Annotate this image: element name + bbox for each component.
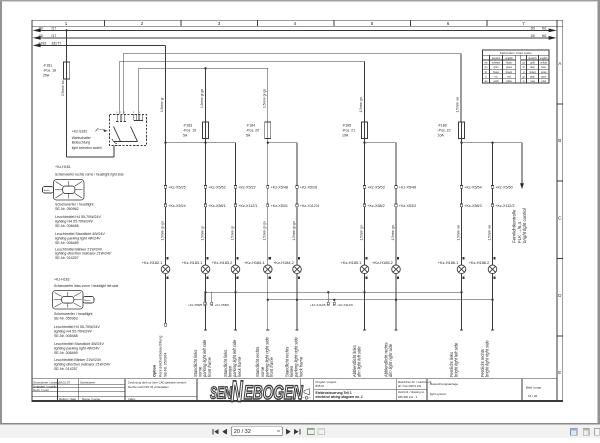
toolbar last page button xyxy=(294,429,300,434)
svg-text:835 M: 835 M xyxy=(316,384,325,388)
wire license plate light branch xyxy=(164,283,166,326)
svg-text:grey: grey xyxy=(541,75,546,78)
wire circuit 7 vertical xyxy=(395,143,397,265)
frame column numbers 1-7 xyxy=(65,21,526,26)
lamp H183.2 label xyxy=(212,260,233,265)
lamp H184.2 xyxy=(293,257,302,283)
title block project cell xyxy=(316,380,363,399)
fuse F185 xyxy=(362,122,368,139)
lamp H186.2 xyxy=(488,257,497,283)
svg-text:+Kz-X58/6: +Kz-X58/6 xyxy=(215,303,229,307)
function label Abblendlicht rechts xyxy=(383,342,393,377)
svg-text:N: N xyxy=(231,376,244,409)
svg-text:lighting direction indicator 2: lighting direction indicator 21W/24V xyxy=(54,363,111,367)
svg-text:Blatt / page: Blatt / page xyxy=(526,385,542,389)
lamp H185.2 xyxy=(392,257,401,283)
svg-text:1: 1 xyxy=(65,21,68,26)
svg-text:SE-Nr. 008489: SE-Nr. 008489 xyxy=(55,241,79,245)
svg-text:SE-Nr. 008489: SE-Nr. 008489 xyxy=(54,351,78,355)
svg-text:violett: violett xyxy=(529,71,536,74)
svg-text:front frame: front frame xyxy=(269,356,274,377)
svg-text:Kennzeichenbeleuchtung: Kennzeichenbeleuchtung xyxy=(159,336,163,377)
function label Fernlicht links xyxy=(449,342,459,377)
color code table xyxy=(483,50,550,83)
svg-text:+Kz-H181: +Kz-H181 xyxy=(55,165,71,169)
svg-text:Beleuchtungsanlage: Beleuchtungsanlage xyxy=(430,382,458,386)
bus 30 wire xyxy=(37,29,551,31)
svg-text:-Pos. 20: -Pos. 20 xyxy=(246,128,259,132)
svg-text:Leuchtmittel Blinker 21W/24V: Leuchtmittel Blinker 21W/24V xyxy=(54,358,102,362)
wire label 1.5mm 2 gn (rotated) xyxy=(359,225,363,240)
title block page cell xyxy=(526,385,542,398)
wire circuit 2 vertical xyxy=(205,143,207,265)
headlight H181 title xyxy=(55,173,124,177)
FLK destination label (rotated) xyxy=(512,207,528,243)
viewer window edge left xyxy=(0,0,2,424)
svg-text:Rechte nach DIN 34 vorbehalten: Rechte nach DIN 34 vorbehalten xyxy=(128,385,169,389)
fuse F184 label xyxy=(246,123,259,137)
svg-text:+Kz-X53/4: +Kz-X53/4 xyxy=(168,204,185,208)
wire circuit 6 vertical xyxy=(364,143,366,265)
frame row letters A-E xyxy=(558,61,562,375)
bus F183 label F183 </77 xyxy=(39,41,62,45)
svg-text:-Pos. 19: -Pos. 19 xyxy=(183,128,196,132)
wire lamp return 8 down xyxy=(460,283,463,330)
svg-text:SEN: SEN xyxy=(210,383,232,402)
wire ground bus A xyxy=(206,291,462,293)
wire lamp return 9 down xyxy=(491,283,494,330)
svg-text:Blinker: Blinker xyxy=(84,300,90,302)
connector pin X53/1 xyxy=(267,204,288,208)
svg-text:1.5mm² gr: 1.5mm² gr xyxy=(230,225,234,240)
wire rail F186 output with FLK branch xyxy=(462,139,523,143)
wire bus30 down to fuse F181 xyxy=(66,30,68,62)
wire FLK branch down with arrow xyxy=(520,143,524,189)
svg-text:1.5mm² ws: 1.5mm² ws xyxy=(456,97,460,113)
svg-text:SE-Nr. 050963: SE-Nr. 050963 xyxy=(54,316,78,320)
svg-text:20 / 32: 20 / 32 xyxy=(234,429,251,435)
svg-text:brown: brown xyxy=(506,71,513,74)
toolbar first page button xyxy=(212,429,218,434)
svg-text:blau: blau xyxy=(530,66,535,69)
bus 15 right arrow xyxy=(549,36,557,40)
svg-text:light system: light system xyxy=(430,392,447,396)
node junction on F184 rail xyxy=(267,142,269,144)
svg-text:Zeich-Nr. / drawing no: Zeich-Nr. / drawing no xyxy=(398,390,425,394)
svg-text:braun: braun xyxy=(493,71,500,74)
bus 15 left label 15/ f17 xyxy=(39,34,57,38)
connector pin X53/2 xyxy=(395,204,416,208)
svg-text:10A: 10A xyxy=(438,133,445,137)
svg-text:rot: rot xyxy=(495,75,498,78)
svg-text:br: br xyxy=(485,71,487,74)
svg-text:blue: blue xyxy=(541,66,546,69)
bus 15 wire xyxy=(37,37,551,39)
svg-text:+Kz-H182.1: +Kz-H182.1 xyxy=(142,260,163,265)
svg-text:1.5mm² gr: 1.5mm² gr xyxy=(160,97,164,112)
wire label 1.5mm 2 ws (rotated) xyxy=(456,225,460,241)
svg-text:16 / 20: 16 / 20 xyxy=(528,394,538,398)
svg-text:+Kz-H186.1: +Kz-H186.1 xyxy=(438,260,459,265)
lamp H185.2 label xyxy=(372,260,393,265)
wire label 1.5mm2 gn (rotated) F185 xyxy=(359,97,363,112)
fuse F181 label -F181 -Pos. 18 25A xyxy=(43,63,56,77)
headlight H182 symbol xyxy=(53,291,95,310)
wire label 1.5mm 2 gr-gn (rotated) xyxy=(160,221,164,240)
title block drawn row xyxy=(33,380,100,401)
svg-text:+Kz-H186.2: +Kz-H186.2 xyxy=(469,260,490,265)
svg-text:heck frame: heck frame xyxy=(237,356,242,377)
switch S182 description text xyxy=(72,136,102,150)
svg-text:1.5mm² ws: 1.5mm² ws xyxy=(487,225,491,241)
svg-text:dim light right side: dim light right side xyxy=(388,343,393,377)
switch S182 enclosure (dashed) xyxy=(110,115,147,146)
wire circuit 8 vertical xyxy=(461,143,463,265)
fuse F183 label xyxy=(183,123,196,137)
function label Standlicht links hinten xyxy=(223,339,242,378)
svg-text:1.5mm² gr-gn: 1.5mm² gr-gn xyxy=(160,221,164,240)
svg-text:5: 5 xyxy=(371,21,374,26)
svg-text:+Kz-X5/50: +Kz-X5/50 xyxy=(495,186,512,190)
svg-text:weiß: weiß xyxy=(493,80,499,83)
svg-text:bright light right side: bright light right side xyxy=(485,340,490,377)
toolbar new window icon xyxy=(308,429,315,435)
svg-text:Leuchtmittel H4 55-70W/24V: Leuchtmittel H4 55-70W/24V xyxy=(55,215,102,219)
wire circuit 1 vertical xyxy=(165,143,167,265)
svg-text:Option: Option xyxy=(153,364,157,377)
connector pin X5/48 xyxy=(267,186,288,190)
svg-text:Scheinwerfer / headlight: Scheinwerfer / headlight xyxy=(54,312,93,316)
statusbar window icon 3 xyxy=(594,429,599,436)
connector pin X5/25 xyxy=(164,186,185,190)
connector pin X5/49 xyxy=(395,186,416,190)
headlight H181 bulb info parking light xyxy=(55,232,106,245)
wire lamp return 2 down xyxy=(204,283,207,330)
fuse F184 xyxy=(265,122,271,139)
svg-text:Scheinwerfer / headlight: Scheinwerfer / headlight xyxy=(55,202,94,206)
svg-text:+Kz-X5/49: +Kz-X5/49 xyxy=(399,186,416,190)
svg-text:-F186: -F186 xyxy=(438,123,447,127)
svg-text:+Kz-H184.2: +Kz-H184.2 xyxy=(273,260,294,265)
svg-text:electrical wiring diagram no.: electrical wiring diagram no. 1 xyxy=(316,395,363,399)
svg-text:SE-Nr. 008488: SE-Nr. 008488 xyxy=(54,334,78,338)
svg-text:5A: 5A xyxy=(183,133,188,137)
fuse F186 label xyxy=(438,123,451,137)
connector pin X112/4 xyxy=(296,204,319,208)
svg-text:2: 2 xyxy=(141,21,144,26)
svg-text:+Kz-S182: +Kz-S182 xyxy=(72,130,88,134)
svg-text:SE-Nr. 008488: SE-Nr. 008488 xyxy=(55,224,79,228)
svg-text:deutsch: deutsch xyxy=(492,57,501,60)
svg-text:F183: F183 xyxy=(39,41,47,45)
svg-text:Wahlschalter: Wahlschalter xyxy=(72,136,92,140)
svg-text:+Kz-H183.2: +Kz-H183.2 xyxy=(212,260,233,265)
function label Standlicht rechts hinten xyxy=(284,336,303,378)
svg-text:+Kz-X58/5: +Kz-X58/5 xyxy=(188,303,202,307)
svg-text:+Kz-X58/3: +Kz-X58/3 xyxy=(464,204,481,208)
svg-text:30/: 30/ xyxy=(39,26,44,30)
wire label 1.5mm 2 gn (rotated) xyxy=(391,225,395,240)
svg-text:15/: 15/ xyxy=(39,34,44,38)
svg-text:+Kz-X112/1: +Kz-X112/1 xyxy=(238,204,257,208)
headlight H182 bulb info indicator xyxy=(54,358,111,371)
lamp H182.1 xyxy=(161,257,170,283)
svg-text:lighting H4 55-70W/24V: lighting H4 55-70W/24V xyxy=(55,220,94,224)
svg-text:+Kz-H185.1: +Kz-H185.1 xyxy=(341,260,362,265)
svg-text:english: english xyxy=(540,57,548,60)
svg-text:Blinker: Blinker xyxy=(44,190,50,192)
wire label 1.5mm 2 gr-gn (rotated) xyxy=(292,221,296,240)
switch S182 label +Kz-S182 with arrow xyxy=(72,129,108,134)
svg-text:lighting parking light 4W/24V: lighting parking light 4W/24V xyxy=(55,236,101,240)
svg-text:ab / from 835.0.311: ab / from 835.0.311 xyxy=(398,384,422,388)
fuse F183 xyxy=(203,122,209,139)
lamp H184.2 label xyxy=(273,260,294,265)
svg-text:5A: 5A xyxy=(246,133,251,137)
lamp H184.1 label xyxy=(244,260,265,265)
function label Abblendlicht links xyxy=(352,345,362,377)
svg-text:+Kz-X5/25: +Kz-X5/25 xyxy=(168,186,185,190)
svg-text:28.02.07: 28.02.07 xyxy=(59,380,71,384)
svg-text:+Kz-X53/1: +Kz-X53/1 xyxy=(271,204,288,208)
connector pin X5/22 xyxy=(234,186,255,190)
svg-text:Leuchtmittel Standlicht 4W/24V: Leuchtmittel Standlicht 4W/24V xyxy=(55,232,106,236)
svg-text:green: green xyxy=(506,66,513,69)
wire switch pin to fuse F185 feed xyxy=(119,61,364,122)
wire bus F183 drop to circuit 1 xyxy=(165,45,167,142)
function label Standlicht rechts vorne xyxy=(255,336,274,378)
lamp H184.1 xyxy=(264,257,273,283)
svg-text:-F185: -F185 xyxy=(342,123,351,127)
svg-text:+Kz-X5/54: +Kz-X5/54 xyxy=(464,186,481,190)
option label (rotated) xyxy=(153,364,157,377)
node junctions on F183 rail xyxy=(164,142,206,144)
node junctions ground bus B xyxy=(267,299,494,301)
connector pin X112/5 X112/6 pair xyxy=(310,292,353,307)
bus 30 left label 30/ f17 xyxy=(39,26,57,30)
svg-text:+Kz-H185.2: +Kz-H185.2 xyxy=(372,260,393,265)
svg-text:Leuchtmittel Standlicht 4W/24V: Leuchtmittel Standlicht 4W/24V xyxy=(54,342,105,346)
svg-text:1.5mm² gn: 1.5mm² gn xyxy=(359,97,363,112)
frame row band right xyxy=(557,20,563,400)
title block system cell xyxy=(430,382,458,396)
svg-text:EBOGEN: EBOGEN xyxy=(244,382,304,404)
frame column ruler band xyxy=(32,20,563,26)
svg-text:1.5mm² gn: 1.5mm² gn xyxy=(391,225,395,240)
svg-text:+Kz-X112/4: +Kz-X112/4 xyxy=(300,204,319,208)
svg-text:dim light left side: dim light left side xyxy=(357,346,362,377)
wire lamp return 3 down xyxy=(234,283,237,330)
svg-text:835.302.111 - 1: 835.302.111 - 1 xyxy=(398,395,418,399)
svg-text:Datum / date: Datum / date xyxy=(59,397,77,401)
lamp H186.1 xyxy=(457,257,466,283)
svg-text:Index: Index xyxy=(128,397,136,401)
svg-text:Norm / norm: Norm / norm xyxy=(33,388,50,392)
svg-text:schwarz: schwarz xyxy=(492,62,502,65)
toolbar duplicate window icon (disabled) xyxy=(318,429,325,435)
wire rail F184 output xyxy=(268,139,297,143)
svg-text:-Pos. 21: -Pos. 21 xyxy=(342,128,355,132)
svg-text:Farbcodes / Color codes: Farbcodes / Color codes xyxy=(500,51,532,55)
svg-text:+Kz-X112/6: +Kz-X112/6 xyxy=(337,303,353,307)
title block grid xyxy=(32,379,557,401)
svg-text:E: E xyxy=(558,370,561,375)
wire label 1.5mm 2 gr (rotated) xyxy=(230,225,234,240)
svg-text:Name / name: Name / name xyxy=(82,397,100,401)
svg-text:B: B xyxy=(558,138,561,143)
headlight H181 bulb info H4 xyxy=(55,215,102,228)
connector pin X58/5 X58/6 pair xyxy=(188,292,229,307)
svg-text:Scheinwerfer rechts vorne /: Scheinwerfer rechts vorne / headlight ri… xyxy=(55,173,124,177)
headlight H181 bulb info indicator xyxy=(55,247,112,260)
svg-text:Maschinen-Nr. / machine-Nr.: Maschinen-Nr. / machine-Nr. xyxy=(398,380,432,384)
viewer toolbar background xyxy=(0,423,600,425)
lamp H186.1 label xyxy=(438,260,459,265)
node junction comb wire to F183 xyxy=(204,67,206,69)
svg-text:f17: f17 xyxy=(52,34,57,38)
wire switch comb to fuses F183 F184 feed xyxy=(138,68,267,122)
function label Standlicht links vorne xyxy=(193,339,212,378)
svg-text:-F184: -F184 xyxy=(246,123,255,127)
title block CAD notice xyxy=(128,381,187,402)
headlight H182 designator xyxy=(54,277,70,281)
svg-text:f17: f17 xyxy=(52,26,57,30)
svg-text:front frame: front frame xyxy=(207,356,212,377)
svg-text:+Kz-X5/26: +Kz-X5/26 xyxy=(300,186,317,190)
svg-text:SE-Nr. 050964: SE-Nr. 050964 xyxy=(163,353,167,377)
svg-text:deutsch: deutsch xyxy=(528,57,537,60)
svg-text:1.5mm² ws: 1.5mm² ws xyxy=(456,225,460,241)
connector pin X5/52 xyxy=(204,186,225,190)
svg-text:+Kz-X53/2: +Kz-X53/2 xyxy=(399,204,416,208)
wire circuit 9 vertical xyxy=(492,143,494,265)
bus 15 left arrow xyxy=(33,36,41,40)
connector pin X58/3 xyxy=(460,204,481,208)
lamp H183.1 label xyxy=(182,260,203,265)
svg-text:heck frame: heck frame xyxy=(298,356,303,377)
switch S182 pin numbers xyxy=(116,112,141,114)
fuse F181 xyxy=(63,62,69,79)
svg-text:2.5mm² sw: 2.5mm² sw xyxy=(61,80,65,96)
svg-text:yellow: yellow xyxy=(540,62,547,65)
connector pin X58/1 xyxy=(204,204,225,208)
svg-text:&lt;/77: &lt;/77 xyxy=(52,41,62,45)
wire rail F183 output xyxy=(166,139,236,143)
toolbar page number field xyxy=(232,427,283,436)
svg-text:light selection switch: light selection switch xyxy=(72,146,102,150)
title block machine number cell xyxy=(398,380,432,399)
svg-text:Beleuchtung: Beleuchtung xyxy=(72,141,90,145)
svg-text:gelb: gelb xyxy=(530,62,535,65)
svg-text:grau: grau xyxy=(530,75,535,78)
headlight H182 bulb info parking light xyxy=(54,342,105,355)
wire label 2.5mm2 sw (rotated) xyxy=(61,80,65,96)
lamp H182.1 label xyxy=(142,260,163,265)
bus F183 wire from sheet 77 xyxy=(37,44,166,46)
wire circuit 5 vertical xyxy=(296,143,298,265)
connector pin X112/3 xyxy=(491,204,514,208)
wire label 1.5mm2 gr-gn (rotated) F183 xyxy=(200,89,204,108)
connector pin X5/54 xyxy=(460,186,481,190)
toolbar next page button xyxy=(286,429,291,435)
connector pin X58/2 xyxy=(363,204,384,208)
svg-text:3: 3 xyxy=(218,21,221,26)
bus 30 left arrow xyxy=(33,29,41,33)
svg-text:rosa: rosa xyxy=(530,80,535,83)
svg-text:25A: 25A xyxy=(43,73,50,77)
wire lamp return 7 down xyxy=(394,283,397,330)
viewer window edge top xyxy=(0,0,600,2)
svg-text:+Kz-H183.1: +Kz-H183.1 xyxy=(182,260,203,265)
svg-text:6: 6 xyxy=(447,21,450,26)
wire circuit 4 vertical xyxy=(267,143,269,265)
svg-text:-Pos. 22: -Pos. 22 xyxy=(438,128,451,132)
svg-text:+Kz-X112/3: +Kz-X112/3 xyxy=(495,204,514,208)
svg-text:+Kz-X5/48: +Kz-X5/48 xyxy=(271,186,288,190)
projection symbol xyxy=(303,389,311,399)
wire lamp return 5 down xyxy=(295,283,298,330)
svg-text:violet: violet xyxy=(541,71,547,74)
lamp H183.1 xyxy=(201,257,210,283)
svg-text:f61: f61 xyxy=(542,26,547,30)
svg-text:lighting direction indicator 2: lighting direction indicator 21W/24V xyxy=(55,252,112,256)
svg-text:7: 7 xyxy=(522,21,525,26)
node junction on F185 rail xyxy=(363,142,365,144)
bus 30 right arrow xyxy=(549,29,557,33)
svg-text:1.5mm² gn: 1.5mm² gn xyxy=(359,225,363,240)
svg-text:10A: 10A xyxy=(342,133,349,137)
svg-text:black: black xyxy=(506,62,512,65)
svg-text:gr: gr xyxy=(523,75,525,78)
svg-text:white: white xyxy=(506,80,512,83)
svg-text:english: english xyxy=(505,57,513,60)
fuse F186 xyxy=(459,122,465,139)
wire label 1.5mm 2 ws (rotated) xyxy=(487,225,491,241)
wire circuit 3 vertical xyxy=(235,143,237,265)
bus F183 left arrow xyxy=(33,44,41,48)
wire rail F185 output xyxy=(365,139,397,143)
svg-text:1.5mm² gr: 1.5mm² gr xyxy=(200,225,204,240)
function label Fernlicht rechts xyxy=(480,340,490,377)
svg-text:1.5mm² gr-gn: 1.5mm² gr-gn xyxy=(263,89,267,108)
wire label 1.5mm2 gr-gn (rotated) F184 xyxy=(263,89,267,108)
wire lamp return 6 down xyxy=(363,283,366,330)
svg-text:Leuchtmittel H4 55-70W/24V: Leuchtmittel H4 55-70W/24V xyxy=(54,325,101,329)
svg-text:1.5mm² gr-gn: 1.5mm² gr-gn xyxy=(292,221,296,240)
wire F181 output to switch S182 input xyxy=(67,79,114,157)
node junctions ground bus A xyxy=(204,291,462,293)
lamp H185.1 xyxy=(360,257,369,283)
connector pin X5/53 xyxy=(363,186,384,190)
svg-text:+Kz-H184.1: +Kz-H184.1 xyxy=(244,260,265,265)
lamp H183.2 xyxy=(231,257,240,283)
viewer window edge right xyxy=(598,0,600,424)
wire label 1.5mm 2 gr-gn (rotated) xyxy=(263,221,267,240)
svg-text:FLK →/6.4: FLK →/6.4 xyxy=(517,221,522,243)
connector pin X5/50 xyxy=(491,186,512,190)
svg-text:15/: 15/ xyxy=(531,34,536,38)
wire switch pin to fuse F186 feed xyxy=(123,54,461,122)
svg-text:sw: sw xyxy=(485,62,488,65)
svg-text:+Kz-X58/2: +Kz-X58/2 xyxy=(367,204,384,208)
headlight H182 title xyxy=(54,284,118,288)
lamp H186.2 label xyxy=(469,260,490,265)
svg-text:SE-Nr. 014257: SE-Nr. 014257 xyxy=(55,256,79,260)
svg-text:4: 4 xyxy=(294,21,297,26)
svg-text:1.5mm² gr-gn: 1.5mm² gr-gn xyxy=(263,221,267,240)
svg-text:bright light left side: bright light left side xyxy=(454,342,459,377)
statusbar window icon 1 xyxy=(571,429,577,436)
